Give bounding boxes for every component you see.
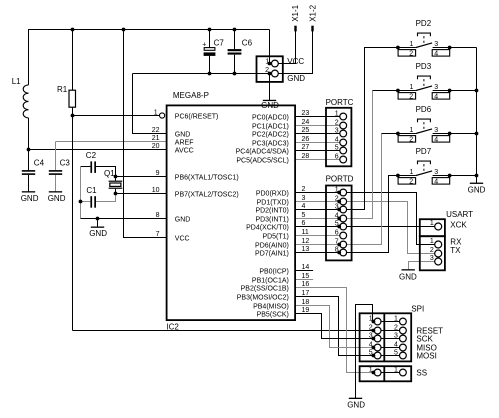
- svg-text:PD2(INT0): PD2(INT0): [255, 208, 288, 215]
- junction switch2 right: [448, 89, 452, 93]
- wire PC3 to PORTC pin4: [295, 142, 340, 144]
- svg-text:4: 4: [434, 178, 438, 185]
- svg-text:19: 19: [302, 307, 310, 314]
- pin 1 inversion bubble: [160, 113, 165, 118]
- svg-text:2: 2: [409, 178, 413, 185]
- svg-text:8: 8: [156, 212, 160, 219]
- junction SPI row1: [372, 320, 376, 324]
- svg-text:AREF: AREF: [175, 140, 194, 147]
- wire PB5 SCK to SPI row3: [295, 314, 374, 339]
- junction RESET node: [71, 114, 75, 118]
- svg-text:16: 16: [302, 281, 310, 288]
- wire USART pin3 to GND: [409, 262, 435, 270]
- wire C1 left: [81, 201, 91, 203]
- wire L1 top segment: [28, 29, 30, 85]
- ground GND under C3: [48, 191, 66, 203]
- junction switch1 left: [396, 46, 400, 50]
- junction switch4 left: [396, 174, 400, 178]
- svg-text:PD4(XCK/T0): PD4(XCK/T0): [246, 225, 289, 232]
- junction GND bus row3: [475, 132, 479, 136]
- junction SPI row3: [372, 337, 376, 341]
- wire switch row 1 to GND bus: [433, 47, 477, 49]
- svg-text:PC2(ADC2): PC2(ADC2): [252, 132, 289, 139]
- resistor R1: [69, 90, 76, 107]
- svg-text:PB5(SCK): PB5(SCK): [257, 312, 289, 319]
- op-amp U1 MEGA8-P MCU box IC2: [167, 105, 296, 320]
- svg-text:5: 5: [335, 144, 339, 151]
- svg-text:4: 4: [434, 136, 438, 143]
- junction PORTD pin4: [337, 217, 341, 221]
- svg-text:X1-1: X1-1: [291, 4, 300, 21]
- wire PB1 stub pin15: [295, 279, 313, 281]
- junction GND bus row2: [475, 89, 479, 93]
- svg-text:VCC: VCC: [175, 236, 190, 243]
- svg-text:20: 20: [152, 143, 160, 150]
- junction AVCC node: [27, 148, 31, 152]
- inductor L1: [23, 85, 28, 118]
- svg-text:AVCC: AVCC: [175, 148, 194, 155]
- svg-text:3: 3: [302, 195, 306, 202]
- svg-text:7: 7: [156, 231, 160, 238]
- wire AVCC node down to C4: [28, 150, 30, 171]
- ground GND under SPI: [347, 398, 365, 410]
- junction switch4 right: [448, 174, 452, 178]
- svg-text:24: 24: [302, 119, 310, 126]
- wire XTAL2 pin10: [116, 193, 167, 195]
- svg-text:3: 3: [434, 84, 438, 91]
- wire C3 to GND: [55, 175, 57, 192]
- ground GND under C4: [21, 191, 39, 203]
- svg-text:1: 1: [154, 110, 158, 117]
- svg-text:6: 6: [335, 153, 339, 160]
- svg-text:3: 3: [434, 169, 438, 176]
- junction GND stub node: [96, 217, 100, 221]
- wire GND stub under crystal: [97, 219, 99, 228]
- wire PD4 to PORTD pin5: [295, 226, 340, 228]
- wire switch row 3 to GND bus: [433, 133, 477, 135]
- wire crystal top lead: [115, 177, 117, 181]
- svg-text:5: 5: [394, 349, 398, 356]
- transistor S2 switch PD3: [398, 62, 450, 100]
- capacitor C3: [49, 170, 62, 175]
- wire SPI GND riser: [356, 305, 375, 399]
- svg-text:PB2(SS/OC1B): PB2(SS/OC1B): [241, 286, 289, 293]
- junction PORTD pin8: [337, 251, 341, 255]
- svg-text:VCC: VCC: [287, 57, 304, 66]
- svg-text:IC2: IC2: [166, 323, 179, 332]
- svg-text:PD1(TXD): PD1(TXD): [257, 200, 289, 207]
- wire PC0 to PORTC pin1: [295, 116, 340, 118]
- capacitor C2: [90, 161, 96, 173]
- wire switch row 2 to GND bus: [433, 90, 477, 92]
- wire PC2 to PORTC pin3: [295, 133, 340, 135]
- junction C7 bottom: [208, 72, 212, 76]
- crystal Q1: [109, 181, 123, 189]
- svg-text:6: 6: [335, 229, 339, 236]
- svg-text:PD3: PD3: [416, 62, 432, 71]
- junction SPI row2: [372, 329, 376, 333]
- connector USART RX/TX box: [420, 236, 445, 270]
- svg-text:PB3(MOSI/OC2): PB3(MOSI/OC2): [237, 295, 289, 302]
- svg-text:GND: GND: [21, 194, 39, 203]
- ground GND under USART: [399, 269, 417, 281]
- svg-text:1: 1: [409, 127, 413, 134]
- svg-text:2: 2: [302, 186, 306, 193]
- svg-text:2: 2: [335, 119, 339, 126]
- junction XTAL1 node: [114, 175, 118, 179]
- junction C7 top: [208, 28, 212, 32]
- connector USART XCK box: [420, 219, 445, 236]
- svg-text:1: 1: [409, 169, 413, 176]
- svg-text:PC1(ADC1): PC1(ADC1): [252, 124, 289, 131]
- svg-text:L1: L1: [12, 77, 21, 86]
- wire GND rail: [133, 73, 270, 75]
- junction C1 left node: [79, 200, 83, 204]
- junction PORTD pin1: [337, 191, 341, 195]
- svg-text:1: 1: [394, 366, 398, 373]
- wire C2 right to XTAL1: [96, 167, 116, 177]
- svg-text:18: 18: [302, 299, 310, 306]
- svg-text:TX: TX: [450, 246, 461, 255]
- svg-text:PB7(XTAL2/TOSC2): PB7(XTAL2/TOSC2): [175, 192, 239, 199]
- svg-text:12: 12: [302, 238, 310, 245]
- capacitor C6: [228, 49, 242, 55]
- wire C2-C1 left rail: [80, 167, 82, 219]
- junction PORTD pin2: [337, 200, 341, 204]
- svg-text:PD6: PD6: [416, 105, 432, 114]
- wire PD1 TXD to USART TX: [346, 202, 434, 254]
- svg-text:3: 3: [335, 127, 339, 134]
- svg-text:C4: C4: [34, 158, 45, 167]
- connector SPI lower box: [360, 366, 412, 381]
- connector PORTD box: [326, 186, 352, 261]
- svg-text:X1-2: X1-2: [308, 4, 317, 21]
- transistor S1 switch PD2: [398, 19, 450, 57]
- ground GND under crystal: [89, 227, 107, 239]
- svg-text:22: 22: [152, 127, 160, 134]
- wire C6 bottom: [234, 55, 236, 74]
- svg-text:26: 26: [302, 136, 310, 143]
- svg-text:27: 27: [302, 144, 310, 151]
- svg-text:4: 4: [335, 136, 339, 143]
- svg-text:PORTC: PORTC: [326, 98, 354, 107]
- wire R1 top segment: [72, 30, 74, 91]
- svg-text:C6: C6: [242, 38, 253, 47]
- svg-text:1: 1: [430, 238, 434, 245]
- wire R1 bottom to RESET node: [72, 107, 74, 115]
- svg-text:MOSI: MOSI: [416, 351, 436, 360]
- svg-text:GND: GND: [175, 217, 191, 224]
- transistor S4 switch PD7: [398, 147, 450, 185]
- svg-text:C2: C2: [86, 151, 97, 160]
- svg-text:1: 1: [394, 315, 398, 322]
- wire PD7 to PORTD pin8: [295, 252, 340, 254]
- svg-text:GND: GND: [48, 194, 66, 203]
- wire X1 pin1 to X1-1 pad: [278, 31, 295, 64]
- svg-text:13: 13: [302, 246, 310, 253]
- svg-text:3: 3: [434, 41, 438, 48]
- junction SPI row4: [372, 346, 376, 350]
- junction PORTD pin5: [337, 225, 341, 229]
- svg-text:PD7: PD7: [416, 147, 432, 156]
- junction VCC riser top: [122, 28, 126, 32]
- wire RESET to MCU pin1: [73, 115, 160, 117]
- wire PD1 to PORTD pin2: [295, 201, 340, 203]
- svg-text:2: 2: [409, 93, 413, 100]
- wire AVCC pin20: [29, 149, 167, 151]
- svg-text:C1: C1: [86, 186, 97, 195]
- wire SPI row1 jumper: [381, 321, 400, 323]
- junction X1 pin2: [268, 72, 272, 76]
- svg-text:PB4(MISO): PB4(MISO): [253, 304, 289, 311]
- svg-text:R1: R1: [57, 85, 68, 94]
- wire PB0 stub pin14: [295, 270, 313, 272]
- wire PD2 to PORTD pin3: [295, 209, 340, 211]
- svg-text:14: 14: [302, 264, 310, 271]
- junction R1 top: [71, 28, 75, 32]
- wire PB3 MOSI to SPI row5: [295, 297, 374, 356]
- wire RESET bottom run to SPI: [73, 330, 375, 332]
- wire X1 pin2 to X1-2 pad: [278, 31, 312, 74]
- wire VCC riser to pin7: [124, 30, 167, 238]
- junction C6 bottom: [233, 72, 237, 76]
- svg-text:1: 1: [409, 41, 413, 48]
- svg-text:C3: C3: [60, 158, 71, 167]
- wire X1 pin2 to GND symbol: [269, 74, 271, 101]
- wire GND riser to pin22: [133, 74, 167, 134]
- junction PORTD pin3: [337, 208, 341, 212]
- svg-text:4: 4: [434, 50, 438, 57]
- connector PORTC box: [326, 108, 351, 167]
- svg-text:PB6(XTAL1/TOSC1): PB6(XTAL1/TOSC1): [175, 175, 239, 182]
- wire PD0 to PORTD pin1: [295, 192, 340, 194]
- wire C4 to GND: [28, 175, 30, 192]
- junction XTAL2 node: [114, 192, 118, 196]
- wire GND pin8: [81, 218, 167, 220]
- svg-text:11: 11: [302, 229, 309, 236]
- svg-text:PD2: PD2: [416, 19, 432, 28]
- wire SPI row4 jumper: [381, 347, 400, 349]
- svg-text:GND: GND: [89, 229, 107, 238]
- wire C7 top: [209, 30, 211, 48]
- svg-text:2: 2: [409, 50, 413, 57]
- wire C6 top: [234, 30, 236, 50]
- capacitor C1: [90, 196, 96, 208]
- wire VCC drop into X1 pin1: [269, 30, 271, 64]
- svg-text:PB1(OC1A): PB1(OC1A): [252, 278, 289, 285]
- svg-text:1: 1: [430, 220, 434, 227]
- pad X1-2: [311, 26, 313, 32]
- svg-text:PC0(ADC0): PC0(ADC0): [252, 115, 289, 122]
- svg-text:PD6(AIN0): PD6(AIN0): [255, 243, 289, 250]
- svg-text:SS: SS: [416, 368, 427, 377]
- svg-text:4: 4: [302, 203, 306, 210]
- svg-text:10: 10: [152, 187, 160, 194]
- svg-text:PD0(RXD): PD0(RXD): [256, 191, 289, 198]
- svg-text:28: 28: [302, 153, 310, 160]
- wire PD3 riser to switch: [346, 91, 372, 219]
- wire PB2 SS to SPI: [295, 288, 374, 373]
- junction switch2 left: [396, 89, 400, 93]
- wire RESET long run down: [72, 116, 74, 331]
- wire SPI row5 jumper: [381, 355, 400, 357]
- wire SPI row3 jumper: [381, 338, 400, 340]
- wire SPI SS jumper: [381, 372, 400, 374]
- svg-text:3: 3: [430, 255, 434, 262]
- svg-text:4: 4: [434, 93, 438, 100]
- svg-text:PB0(ICP): PB0(ICP): [259, 269, 289, 276]
- wire crystal bottom lead: [115, 189, 117, 194]
- svg-text:3: 3: [394, 332, 398, 339]
- svg-text:5: 5: [302, 212, 306, 219]
- wire C1 right to XTAL2: [96, 194, 116, 202]
- wire PD2 riser to switch: [346, 48, 416, 210]
- junction PORTD pin7: [337, 243, 341, 247]
- svg-text:23: 23: [302, 110, 310, 117]
- wire AREF down to C3: [55, 142, 57, 171]
- svg-text:GND: GND: [287, 74, 305, 83]
- pad X1-1: [294, 26, 296, 32]
- wire L1 bottom to AVCC node: [28, 118, 30, 150]
- wire XTAL1 pin9: [116, 176, 167, 178]
- svg-text:GND: GND: [347, 401, 365, 410]
- svg-text:21: 21: [152, 135, 160, 142]
- wire PD5 to PORTD pin6: [295, 235, 340, 237]
- svg-text:1: 1: [335, 110, 339, 117]
- wire PD0 RXD to USART RX: [346, 193, 434, 245]
- svg-text:PC4(ADC4/SDA): PC4(ADC4/SDA): [236, 149, 289, 156]
- svg-text:PORTD: PORTD: [326, 175, 354, 184]
- transistor S3 switch PD6: [398, 105, 450, 143]
- svg-text:9: 9: [156, 170, 160, 177]
- wire C7 bottom: [209, 56, 211, 74]
- wire GND bus vertical: [476, 48, 478, 184]
- wire PC1 to PORTC pin2: [295, 125, 340, 127]
- ground GND under X1: [261, 100, 279, 110]
- junction switch1 right: [448, 46, 452, 50]
- svg-text:2: 2: [409, 136, 413, 143]
- junction X1 pin1: [268, 62, 272, 66]
- svg-text:Q1: Q1: [104, 169, 115, 178]
- svg-text:PD7(AIN1): PD7(AIN1): [255, 251, 289, 258]
- junction switch3 right: [448, 132, 452, 136]
- wire C2 left: [81, 166, 91, 168]
- capacitor C7 (electrolytic): [202, 41, 215, 56]
- svg-text:25: 25: [302, 127, 310, 134]
- junction C6 top: [233, 28, 237, 32]
- wire SPI row2 jumper: [381, 330, 400, 332]
- svg-text:MEGA8-P: MEGA8-P: [173, 91, 209, 100]
- ground GND right bus: [468, 183, 486, 195]
- svg-text:C7: C7: [214, 38, 225, 47]
- wire PC5 to PORTC pin6: [295, 159, 340, 161]
- junction SPI SS: [372, 371, 376, 375]
- svg-text:SCK: SCK: [416, 334, 433, 343]
- svg-text:1: 1: [409, 84, 413, 91]
- wire PC4 to PORTC pin5: [295, 150, 340, 152]
- junction switch3 left: [396, 132, 400, 136]
- svg-text:PD5(T1): PD5(T1): [262, 234, 288, 241]
- svg-text:GND: GND: [175, 132, 191, 139]
- wire PD6 to PORTD pin7: [295, 244, 340, 246]
- svg-text:17: 17: [302, 290, 310, 297]
- wire PB4 MISO to SPI row4: [295, 306, 374, 348]
- svg-text:3: 3: [434, 127, 438, 134]
- svg-text:2: 2: [394, 324, 398, 331]
- wire PD4 to USART XCK: [346, 226, 434, 228]
- connector X1 power box: [257, 56, 283, 82]
- wire switch row 4 to GND bus: [433, 175, 477, 177]
- junction GND bus row4: [475, 174, 479, 178]
- svg-text:GND: GND: [399, 272, 417, 281]
- wire PD3 to PORTD pin4: [295, 218, 340, 220]
- wire VCC top rail: [29, 29, 270, 31]
- svg-text:PC3(ADC3): PC3(ADC3): [252, 141, 289, 148]
- svg-text:PC5(ADC5/SCL): PC5(ADC5/SCL): [236, 158, 289, 165]
- svg-text:PC6(/RESET): PC6(/RESET): [175, 114, 219, 121]
- wire PD7 riser to switch: [346, 176, 416, 253]
- wire PD6 riser to switch: [346, 134, 381, 245]
- svg-text:4: 4: [394, 341, 398, 348]
- svg-text:GND: GND: [468, 185, 486, 194]
- junction SPI row5: [372, 354, 376, 358]
- svg-text:15: 15: [302, 273, 310, 280]
- wire AREF pin21: [56, 141, 167, 143]
- capacitor C4: [22, 170, 35, 175]
- svg-text:6: 6: [302, 220, 306, 227]
- svg-text:USART: USART: [446, 210, 473, 219]
- svg-text:XCK: XCK: [450, 220, 467, 229]
- svg-text:PD3(INT1): PD3(INT1): [255, 217, 288, 224]
- svg-text:2: 2: [430, 247, 434, 254]
- connector SPI upper box: [360, 313, 412, 361]
- svg-text:SPI: SPI: [411, 305, 424, 314]
